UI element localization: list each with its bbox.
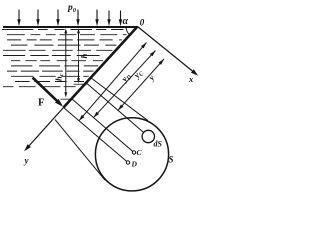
force F arrow [33, 78, 64, 107]
label dS [154, 140, 163, 149]
level tick at C [61, 98, 72, 100]
svg-text:D: D [131, 160, 138, 169]
surface load arrow 5 [95, 10, 98, 27]
projection ray to D [64, 108, 127, 162]
label C [137, 148, 143, 157]
dimension line yD [79, 43, 147, 121]
y axis (thin continuation) [24, 108, 63, 152]
surface load arrow 4 [76, 10, 79, 27]
svg-text:α: α [123, 16, 129, 27]
area S circle (true shape) [95, 118, 168, 191]
label p0 [67, 3, 77, 14]
dimension line y [118, 59, 164, 110]
label h_c [53, 69, 65, 83]
label 0 (origin) [140, 18, 145, 28]
label h [79, 51, 90, 61]
label x [188, 74, 194, 84]
projection ray to C [72, 99, 133, 151]
svg-text:0: 0 [140, 18, 145, 28]
surface load arrow 1 [17, 10, 20, 27]
svg-text:S: S [169, 155, 174, 165]
svg-text:h: h [79, 54, 89, 59]
label D [131, 160, 138, 169]
angle arc alpha [126, 27, 130, 35]
label S [169, 155, 174, 165]
label y (axis) [24, 156, 30, 166]
free surface line [3, 26, 138, 28]
water hatching [2, 30, 127, 87]
x axis [138, 27, 199, 76]
label F [38, 98, 44, 109]
projection ray to dS [86, 83, 143, 132]
level tick at dS [74, 83, 88, 85]
centroid C dot [132, 151, 135, 154]
label yC [131, 66, 146, 81]
svg-text:x: x [188, 74, 194, 84]
pressure centre D dot [126, 161, 129, 164]
tube edge upper-right [91, 78, 148, 121]
surface load arrow 3 [56, 10, 59, 27]
depth arrow h_c [64, 28, 67, 97]
label yD [119, 70, 134, 85]
svg-text:F: F [38, 98, 44, 109]
surface load arrow 7 [119, 11, 122, 27]
dimension line yC [94, 51, 156, 118]
element dS circle [142, 130, 154, 142]
label y (dimension) [146, 72, 157, 82]
depth arrow h [77, 28, 80, 83]
svg-text:dS: dS [154, 140, 163, 149]
tube edge lower-left [55, 120, 105, 181]
inclined plate (heavy trace) [64, 27, 138, 108]
label alpha [123, 16, 129, 27]
surface load arrow 2 [36, 10, 39, 27]
surface load arrow 6 [107, 11, 110, 27]
